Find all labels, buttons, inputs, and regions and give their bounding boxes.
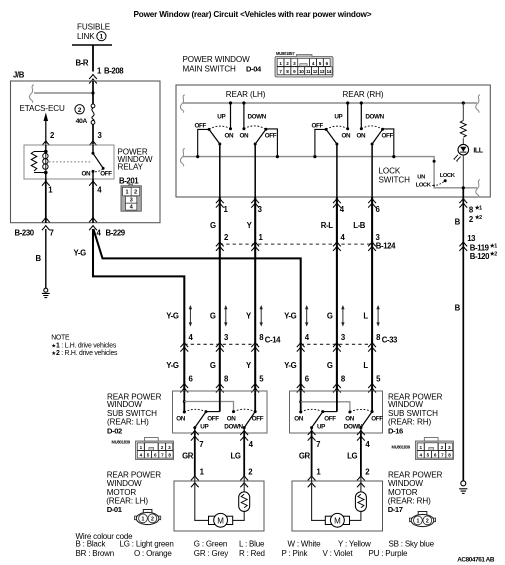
svg-text:OFF: OFF [207, 415, 219, 422]
svg-text:NOTE: NOTE [51, 335, 70, 342]
svg-text:OFF: OFF [265, 132, 277, 139]
svg-text:DOWN: DOWN [248, 113, 267, 120]
svg-text:SB : Sky blue: SB : Sky blue [389, 540, 435, 549]
svg-text:REAR (LH): REAR (LH) [226, 90, 266, 99]
svg-text:C-14: C-14 [265, 336, 281, 345]
svg-text:L-B: L-B [353, 221, 366, 230]
svg-text:B-229: B-229 [106, 229, 126, 238]
svg-text:D-01: D-01 [107, 505, 123, 514]
svg-text:★1 : L.H. drive vehicles: ★1 : L.H. drive vehicles [51, 342, 117, 349]
svg-text:Y-G: Y-G [284, 312, 297, 321]
svg-text:POWER WINDOW: POWER WINDOW [183, 55, 251, 64]
svg-text:OFF: OFF [371, 415, 383, 422]
svg-text:SUB SWITCH: SUB SWITCH [388, 409, 438, 418]
svg-text:★1: ★1 [474, 206, 482, 212]
svg-text:G: G [210, 221, 216, 230]
svg-text:G: G [327, 361, 333, 370]
svg-text:L : Blue: L : Blue [239, 540, 265, 549]
svg-text:PU : Purple: PU : Purple [369, 549, 408, 558]
svg-text:WINDOW: WINDOW [388, 400, 423, 409]
svg-text:OFF: OFF [312, 122, 324, 129]
svg-text:D-02: D-02 [107, 426, 122, 435]
svg-text:LG : Light green: LG : Light green [120, 540, 174, 549]
svg-text:LOCK: LOCK [440, 173, 456, 179]
svg-text:D-04: D-04 [246, 65, 262, 74]
svg-text:(REAR: RH): (REAR: RH) [388, 418, 431, 427]
svg-text:1: 1 [416, 519, 419, 525]
svg-text:Power Window (rear) Circuit <V: Power Window (rear) Circuit <Vehicles wi… [134, 10, 372, 19]
svg-text:(REAR: LH): (REAR: LH) [107, 418, 149, 427]
svg-text:B: B [455, 218, 461, 227]
svg-text:B-208: B-208 [104, 67, 124, 76]
svg-text:11: 11 [306, 69, 311, 74]
svg-text:GR : Grey: GR : Grey [194, 549, 228, 558]
svg-text:4: 4 [130, 205, 133, 211]
svg-text:G : Green: G : Green [194, 540, 227, 549]
svg-text:D-16: D-16 [388, 426, 403, 435]
svg-text:OFF: OFF [382, 132, 394, 139]
svg-text:G: G [327, 312, 333, 321]
svg-text:13: 13 [467, 234, 476, 243]
svg-text:RELAY: RELAY [118, 163, 144, 172]
svg-text:13: 13 [320, 69, 325, 74]
svg-text:ETACS-ECU: ETACS-ECU [20, 104, 66, 113]
svg-text:FUSIBLE: FUSIBLE [77, 23, 111, 32]
svg-text:LOCK: LOCK [416, 182, 432, 188]
svg-text:O : Orange: O : Orange [134, 549, 172, 558]
svg-text:GR: GR [299, 452, 311, 461]
svg-text:L: L [363, 361, 368, 370]
svg-text:ON: ON [176, 415, 185, 422]
svg-text:2: 2 [78, 107, 82, 114]
svg-text:2: 2 [426, 519, 429, 525]
svg-text:3: 3 [130, 198, 133, 204]
svg-text:DOWN: DOWN [344, 423, 363, 430]
svg-text:Y-G: Y-G [166, 361, 179, 370]
svg-text:ON: ON [357, 132, 366, 139]
svg-text:M: M [217, 516, 224, 525]
svg-text:ON: ON [342, 132, 351, 139]
svg-text:ON: ON [225, 132, 234, 139]
svg-text:★2 : R.H. drive vehicles: ★2 : R.H. drive vehicles [51, 350, 118, 357]
svg-text:B-230: B-230 [15, 229, 35, 238]
svg-text:W : White: W : White [288, 540, 322, 549]
svg-text:B: B [455, 303, 461, 312]
svg-text:LG: LG [347, 452, 357, 461]
svg-text:ILL: ILL [473, 148, 483, 155]
svg-text:MU801839: MU801839 [392, 444, 411, 449]
svg-text:R : Red: R : Red [239, 549, 265, 558]
svg-text:UP: UP [334, 113, 342, 120]
svg-text:OFF: OFF [100, 171, 112, 178]
svg-text:UP: UP [317, 423, 325, 430]
svg-text:UP: UP [200, 423, 208, 430]
svg-text:LOCK: LOCK [379, 167, 401, 176]
svg-text:C-33: C-33 [382, 336, 398, 345]
svg-text:★2: ★2 [474, 215, 482, 221]
svg-text:MU801839: MU801839 [112, 439, 131, 444]
svg-text:OFF: OFF [324, 415, 336, 422]
svg-text:SWITCH: SWITCH [379, 176, 411, 185]
svg-text:7: 7 [50, 229, 54, 238]
svg-text:Y-G: Y-G [74, 249, 87, 258]
svg-text:V : Violet: V : Violet [323, 549, 354, 558]
svg-text:40A: 40A [76, 118, 88, 125]
svg-text:Y : Yellow: Y : Yellow [338, 540, 371, 549]
svg-text:LG: LG [230, 452, 240, 461]
svg-text:2: 2 [134, 190, 137, 196]
svg-text:MAIN SWITCH: MAIN SWITCH [183, 65, 237, 74]
svg-text:★1: ★1 [489, 243, 497, 249]
svg-text:Y-G: Y-G [166, 312, 179, 321]
svg-text:1: 1 [125, 190, 128, 196]
svg-text:ON: ON [82, 171, 91, 178]
svg-text:1: 1 [142, 517, 145, 523]
svg-text:G: G [210, 312, 216, 321]
svg-text:2: 2 [151, 517, 154, 523]
svg-text:AC804761 AB: AC804761 AB [457, 556, 495, 563]
svg-text:SUB SWITCH: SUB SWITCH [107, 409, 157, 418]
svg-text:LINK: LINK [77, 32, 95, 41]
svg-text:14: 14 [327, 69, 332, 74]
svg-text:B-124: B-124 [376, 242, 396, 251]
svg-text:R-L: R-L [321, 221, 333, 230]
svg-text:B: B [36, 254, 42, 263]
svg-text:REAR (RH): REAR (RH) [343, 90, 384, 99]
svg-text:★2: ★2 [489, 252, 497, 258]
svg-text:DOWN: DOWN [224, 423, 243, 430]
svg-text:GR: GR [182, 452, 194, 461]
svg-text:MU801857: MU801857 [276, 51, 295, 56]
svg-text:ON: ON [345, 415, 354, 422]
svg-text:L: L [363, 312, 368, 321]
svg-text:7: 7 [199, 440, 203, 449]
svg-text:ON: ON [227, 415, 236, 422]
svg-text:P : Pink: P : Pink [282, 549, 309, 558]
svg-text:ON: ON [294, 415, 303, 422]
svg-text:OFF: OFF [195, 122, 207, 129]
svg-text:ON: ON [240, 132, 249, 139]
svg-text:M: M [334, 516, 341, 525]
svg-text:D-17: D-17 [388, 505, 403, 514]
svg-text:10: 10 [299, 69, 304, 74]
svg-text:B-R: B-R [76, 59, 89, 68]
svg-text:UN: UN [417, 175, 425, 181]
svg-text:WINDOW: WINDOW [107, 400, 142, 409]
svg-text:1: 1 [100, 34, 104, 41]
svg-text:J/B: J/B [13, 71, 25, 80]
svg-text:7: 7 [316, 440, 320, 449]
svg-text:DOWN: DOWN [365, 113, 384, 120]
svg-text:BR : Brown: BR : Brown [76, 549, 114, 558]
svg-text:B-120: B-120 [470, 252, 490, 261]
svg-text:Y-G: Y-G [284, 361, 297, 370]
svg-text:UP: UP [217, 113, 225, 120]
svg-text:B : Black: B : Black [76, 540, 107, 549]
svg-text:G: G [210, 361, 216, 370]
svg-text:12: 12 [313, 69, 318, 74]
svg-text:OFF: OFF [252, 415, 264, 422]
